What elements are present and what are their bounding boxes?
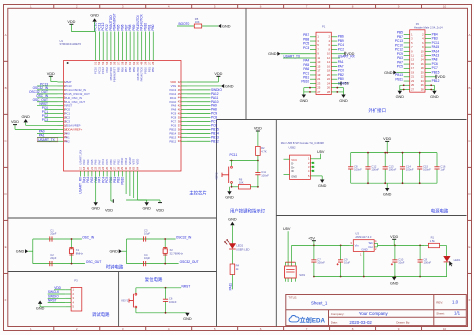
svg-text:Vin: Vin bbox=[355, 243, 359, 247]
svg-text:PB12: PB12 bbox=[211, 139, 219, 143]
connector P2 bbox=[410, 22, 443, 92]
P2 pin 4 bbox=[422, 37, 431, 41]
section divider vertical (debug | reset) bbox=[118, 272, 120, 327]
svg-text:电源电路: 电源电路 bbox=[431, 207, 449, 214]
pin 4 (left PC15_OSC32_OUT) bbox=[58, 92, 91, 96]
VDD flag at P2 pin22 bbox=[431, 75, 446, 79]
svg-text:10uF: 10uF bbox=[344, 261, 350, 265]
svg-text:PB11: PB11 bbox=[395, 77, 403, 81]
svg-text:KEY1: KEY1 bbox=[121, 299, 128, 303]
ground at P2 pin19 bbox=[384, 71, 396, 75]
section divider vertical (left of user-key column) bbox=[216, 120, 218, 327]
svg-text:U1: U1 bbox=[60, 39, 64, 43]
ground at VSS bbox=[221, 84, 234, 88]
P2 pin 11 bbox=[404, 54, 415, 58]
P1 pin 9 bbox=[310, 52, 319, 56]
P1 pin 27 bbox=[310, 90, 321, 94]
svg-text:100nF: 100nF bbox=[389, 168, 397, 172]
capacitor C16 1uF bbox=[434, 153, 445, 184]
wire / net label PC7 (right) bbox=[187, 120, 217, 124]
P2 pin 3 bbox=[404, 37, 413, 41]
svg-text:GND: GND bbox=[318, 184, 327, 188]
VDD flag at P1 pin10 bbox=[337, 52, 354, 56]
wire (bottom pin 14) bbox=[133, 177, 135, 199]
svg-text:PC5: PC5 bbox=[397, 65, 403, 69]
svg-text:PB15: PB15 bbox=[432, 70, 440, 74]
VDD flag right of MCU bbox=[214, 72, 222, 76]
wire bottom to VDD A bbox=[111, 177, 113, 202]
pin 37 (right PC6) bbox=[171, 123, 187, 127]
svg-text:GND: GND bbox=[361, 247, 367, 251]
wire (bottom pin 13) bbox=[129, 177, 131, 197]
pin 2 (left PC13) bbox=[58, 84, 73, 88]
P2 pin 27 bbox=[404, 87, 415, 91]
wire / net label BOOT0 bbox=[177, 22, 194, 26]
wire / net label PC2 bbox=[42, 114, 58, 118]
pin 49 (top PA14/JTCK) bbox=[140, 13, 144, 81]
P1 pin 16 bbox=[327, 64, 337, 68]
P2 pin 25 bbox=[404, 83, 415, 87]
wire rail to GND 12 20pF bbox=[28, 250, 33, 252]
wire USB VCC to U5V bbox=[310, 150, 324, 159]
pin 6 (left PH1_OSC_OUT) bbox=[58, 100, 86, 104]
section divider vertical (headers | MCU) bbox=[245, 8, 247, 119]
cap bank bottom rail bbox=[351, 182, 437, 184]
wire (bottom pin 15) bbox=[137, 177, 139, 201]
P2 pin 12 bbox=[421, 54, 431, 58]
VDD flag at VBAT bbox=[47, 72, 55, 76]
ground at reset bbox=[183, 313, 192, 321]
P1 pin 12 bbox=[327, 56, 337, 60]
svg-text:Sheet:: Sheet: bbox=[436, 311, 445, 315]
pin 28 (bottom PB2) bbox=[116, 159, 120, 177]
svg-text:PC11: PC11 bbox=[230, 153, 238, 157]
wire / net label PB15 (right) bbox=[187, 127, 219, 131]
svg-text:GND: GND bbox=[228, 217, 237, 221]
wire R5 to GND bbox=[202, 25, 218, 27]
wire bottom to GND B bbox=[126, 200, 147, 202]
title block REV bbox=[436, 300, 458, 305]
svg-text:GND: GND bbox=[222, 24, 231, 28]
ground above LED2 bbox=[228, 217, 237, 225]
svg-text:U3: U3 bbox=[355, 231, 359, 235]
op-amp U1 STM32F411RET6 body bbox=[60, 39, 182, 171]
svg-text:Header Male 2.54_2x14: Header Male 2.54_2x14 bbox=[414, 25, 443, 29]
pin 63 (bottom VSS) bbox=[132, 159, 136, 177]
svg-text:Company:: Company: bbox=[331, 312, 345, 316]
svg-text:GND: GND bbox=[142, 207, 151, 211]
P1 pin 18 bbox=[327, 69, 337, 73]
push button KEY2 bbox=[214, 161, 232, 187]
capacitor C4 bbox=[144, 253, 151, 266]
wire / net label OSC_IN bbox=[36, 94, 57, 98]
P2 pin 19 bbox=[404, 70, 415, 74]
svg-text:+5V: +5V bbox=[342, 82, 349, 86]
wire VDD to R2 bbox=[257, 131, 259, 146]
pin 40 (right PC9) bbox=[171, 112, 187, 116]
svg-text:USB2: USB2 bbox=[289, 145, 297, 149]
wire rail to GND 34 10pF bbox=[122, 250, 127, 252]
svg-text:GND: GND bbox=[36, 306, 45, 310]
wire OSC left rail 34 10pF bbox=[126, 239, 128, 264]
crystal X2 32.768KHz bbox=[163, 238, 183, 264]
svg-text:NRST: NRST bbox=[48, 299, 57, 303]
pin 24 (bottom PC4) bbox=[101, 159, 105, 177]
pin 26 (top PB0) bbox=[151, 24, 155, 72]
pin 22 (bottom PA6) bbox=[94, 159, 98, 176]
ground below MCU (A) bbox=[91, 202, 100, 210]
connector P3 (SWD) bbox=[71, 279, 82, 311]
capacitor C2 bbox=[50, 253, 57, 266]
wire P2 pins 25/27 to GND bbox=[400, 84, 405, 90]
wire OSC bottom rail 34 10pF bbox=[127, 263, 179, 265]
svg-text:VDD: VDD bbox=[105, 208, 113, 212]
ground below cap bank bbox=[383, 188, 392, 196]
wire VSS to GND bbox=[187, 85, 221, 87]
polarity mark C9 bbox=[337, 263, 339, 265]
resistor R2 4.7K bbox=[256, 146, 267, 155]
title block Company bbox=[331, 311, 389, 316]
wire U3 to R1 bbox=[424, 244, 428, 246]
regulator top rail right bbox=[378, 245, 425, 247]
wire VSSA to GND bbox=[26, 122, 58, 125]
wire / net label PA0 bbox=[37, 130, 58, 134]
junction C7 top bbox=[340, 245, 342, 247]
capacitor C14 100nF bbox=[400, 153, 414, 184]
svg-text:10: 10 bbox=[443, 327, 447, 331]
svg-text:外扩接口: 外扩接口 bbox=[368, 107, 386, 114]
pin 20 (bottom PA4) bbox=[86, 159, 90, 176]
pin 53 (top PC12) bbox=[101, 22, 105, 74]
pin 1 (left VBAT) bbox=[58, 80, 72, 84]
svg-text:主控芯片: 主控芯片 bbox=[189, 189, 207, 196]
ground below P2 (right) bbox=[430, 91, 439, 99]
regulator top rail left bbox=[292, 245, 350, 247]
svg-text:GND: GND bbox=[16, 250, 25, 254]
VDD flag below MCU (B) bbox=[156, 203, 164, 213]
svg-text:Your Company: Your Company bbox=[359, 311, 389, 316]
P2 pin 18 bbox=[421, 66, 431, 70]
wire GND to LED2 bbox=[231, 225, 233, 244]
USB shield pins bbox=[284, 159, 290, 174]
svg-text:VDD: VDD bbox=[214, 72, 222, 76]
capacitor C6 100nF bbox=[163, 288, 177, 313]
svg-text:A: A bbox=[468, 33, 470, 37]
wire OSC top rail 34 10pF bbox=[127, 238, 176, 240]
wire P2 pin19 to GND bbox=[397, 72, 404, 74]
title block bbox=[286, 295, 467, 326]
resistor R4 1k bbox=[230, 264, 239, 275]
LED LED2 USER LED bbox=[225, 239, 250, 251]
P1 pin 1 bbox=[310, 35, 319, 39]
capacitor C12 100nF bbox=[365, 153, 379, 184]
pin 31 (right VSS) bbox=[171, 84, 187, 88]
wire bottom to VDD B bbox=[138, 200, 160, 203]
P1 pin 4 bbox=[328, 39, 337, 43]
P1 pin 23 bbox=[310, 81, 321, 85]
svg-text:U5V: U5V bbox=[283, 227, 291, 231]
svg-text:GND: GND bbox=[21, 115, 30, 119]
svg-text:立创EDA: 立创EDA bbox=[300, 316, 326, 324]
switch SW1 bbox=[285, 262, 306, 282]
pin 26 (bottom PB0) bbox=[109, 159, 113, 177]
svg-text:B: B bbox=[468, 86, 470, 90]
pin 25 (bottom PC5) bbox=[105, 159, 109, 177]
P2 pin 2 bbox=[422, 32, 431, 36]
pin 59 (top PB7) bbox=[124, 24, 128, 72]
P2 pin 28 bbox=[421, 87, 431, 91]
capacitor C13 100nF bbox=[383, 153, 397, 184]
crystal X1 8MHz bbox=[69, 238, 83, 264]
svg-text:LED2: LED2 bbox=[236, 243, 243, 247]
svg-text:VDD: VDD bbox=[383, 137, 391, 141]
pin 51 (top PC10) bbox=[93, 22, 97, 74]
P2 pin 7 bbox=[404, 45, 413, 49]
svg-text:KEY2: KEY2 bbox=[214, 172, 218, 179]
P1 pin 8 bbox=[328, 47, 337, 51]
ground at P1 pin9 bbox=[268, 52, 280, 56]
pin 50 (top PA15/JTDI) bbox=[136, 15, 140, 80]
svg-text:A: A bbox=[5, 33, 7, 37]
P1 pin 20 bbox=[327, 73, 337, 77]
P2 pin 17 bbox=[404, 66, 415, 70]
svg-text:20pF: 20pF bbox=[50, 232, 56, 236]
pin 14 (left PA0) bbox=[58, 131, 71, 135]
P1 pin 17 bbox=[310, 69, 321, 73]
no-connect flags on USB data pins bbox=[310, 162, 314, 172]
pin 36 (right PB15) bbox=[169, 127, 187, 131]
svg-text:VDD: VDD bbox=[254, 127, 262, 131]
wire / net label VDD (P3) bbox=[54, 286, 65, 290]
P2 pin 23 bbox=[404, 79, 415, 83]
svg-text:ID: ID bbox=[291, 169, 294, 173]
P1 pin 24 bbox=[327, 81, 337, 85]
ground at VSSA bbox=[21, 115, 30, 123]
P1 pin 22 bbox=[327, 77, 337, 81]
wire rail to GND (regulator) bbox=[394, 276, 396, 279]
P1 pin 14 bbox=[327, 60, 337, 64]
P1 pin 5 bbox=[310, 43, 319, 47]
pin 29 (top PB10) bbox=[143, 23, 147, 74]
LED LED1 bbox=[444, 256, 451, 262]
svg-text:100nF: 100nF bbox=[424, 261, 432, 265]
pin 15 (left PA1) bbox=[58, 135, 71, 139]
EasyEDA logo bbox=[289, 315, 325, 324]
pin 35 (right PB14) bbox=[169, 131, 187, 135]
pin 27 (top PB1) bbox=[147, 24, 151, 72]
svg-text:100nF: 100nF bbox=[169, 300, 177, 304]
P2 pin 9 bbox=[404, 49, 413, 53]
wire +5V branch down to SW1 bbox=[291, 245, 293, 262]
P3 pin 4 bbox=[65, 300, 74, 304]
svg-text:F: F bbox=[5, 298, 7, 302]
P1 pin 28 bbox=[327, 90, 337, 94]
junctions on cap bank bbox=[367, 152, 421, 184]
svg-text:时钟电路: 时钟电路 bbox=[106, 264, 124, 271]
svg-text:U5V: U5V bbox=[317, 150, 325, 154]
svg-text:10K: 10K bbox=[195, 20, 200, 24]
P1 pin 21 bbox=[310, 77, 321, 81]
wire bottom to GND A bbox=[95, 177, 97, 203]
wire U5V down to SW1 bbox=[287, 231, 289, 262]
pin 44 (right PA11) bbox=[170, 96, 187, 100]
svg-text:PC3: PC3 bbox=[42, 118, 48, 122]
pin 21 (bottom PA5) bbox=[90, 159, 94, 176]
P3 pin 2 bbox=[65, 292, 74, 296]
P2 pin 24 bbox=[421, 79, 431, 83]
ground at USB bbox=[318, 180, 327, 188]
pin 18 (bottom PA3) bbox=[82, 159, 86, 176]
svg-text:PB12: PB12 bbox=[169, 139, 176, 143]
svg-text:OSC_OUT: OSC_OUT bbox=[86, 260, 101, 264]
svg-text:VDD: VDD bbox=[156, 209, 164, 213]
svg-text:100nF: 100nF bbox=[371, 168, 379, 172]
wire R1 to LED1 bbox=[440, 245, 447, 256]
svg-text:100nF: 100nF bbox=[317, 261, 325, 265]
svg-text:USART_RX: USART_RX bbox=[338, 54, 356, 58]
pin 17 (bottom USART_RX) bbox=[78, 150, 82, 177]
title block Date bbox=[331, 320, 411, 325]
svg-text:Mini USB B SP Female TH_C46398: Mini USB B SP Female TH_C46398 bbox=[281, 141, 324, 145]
wire / net label PC13 bbox=[37, 82, 58, 86]
resistor R1 1.5k bbox=[428, 236, 439, 248]
wire P1 pins 26/28 to GND bbox=[336, 87, 343, 95]
svg-text:Date:: Date: bbox=[331, 321, 338, 325]
pin 45 (right PA12) bbox=[170, 92, 187, 96]
svg-text:GND: GND bbox=[225, 196, 234, 200]
ground below P1 (right) bbox=[339, 95, 348, 103]
P1 pin 13 bbox=[310, 60, 321, 64]
svg-text:VCC: VCC bbox=[291, 158, 297, 162]
ground below MCU (B) bbox=[142, 202, 151, 210]
svg-text:F: F bbox=[469, 298, 471, 302]
pin 7 (left NRST) bbox=[58, 104, 73, 108]
svg-text:GND: GND bbox=[430, 95, 439, 99]
svg-text:100nF: 100nF bbox=[261, 173, 269, 177]
svg-text:VDD: VDD bbox=[135, 159, 139, 165]
svg-text:E: E bbox=[5, 245, 7, 249]
wire PC11 node rail bbox=[230, 160, 259, 162]
svg-text:P3: P3 bbox=[74, 279, 78, 283]
wire / net label PC1 bbox=[42, 110, 58, 114]
svg-text:PB12: PB12 bbox=[432, 79, 440, 83]
svg-text:GND: GND bbox=[300, 99, 309, 103]
regulator U3 AMS1117-3.3 bbox=[350, 231, 378, 276]
wire bottom rail (user key) bbox=[231, 186, 259, 188]
wire / net label PA10 (right) bbox=[187, 100, 219, 104]
wire / port USART_TX bbox=[37, 138, 58, 142]
resistor R6 10K bbox=[238, 178, 250, 189]
wire / net label PA11 (right) bbox=[187, 96, 219, 100]
pin 11 (left PC3) bbox=[58, 119, 71, 123]
svg-text:GND: GND bbox=[90, 14, 99, 18]
svg-text:PB0: PB0 bbox=[151, 67, 155, 73]
P2 pin 16 bbox=[421, 62, 431, 66]
svg-text:USART_TX: USART_TX bbox=[284, 54, 301, 58]
wire / net label PB12 (right) bbox=[187, 139, 219, 143]
P2 pin 13 bbox=[404, 58, 415, 62]
pin 27 (bottom PB1) bbox=[113, 159, 117, 177]
svg-text:BOOT0: BOOT0 bbox=[179, 22, 190, 26]
wire / net label PB13 (right) bbox=[187, 135, 219, 139]
svg-text:Out: Out bbox=[368, 245, 373, 249]
wire / net label OSC32_OUT bbox=[29, 90, 57, 94]
pin 57 (top PB5) bbox=[117, 24, 121, 72]
push button KEY1 bbox=[121, 288, 136, 313]
svg-text:AMS1117-3.3: AMS1117-3.3 bbox=[355, 235, 372, 239]
section divider horizontal (USB/power split) bbox=[276, 215, 466, 217]
svg-text:D-: D- bbox=[291, 162, 294, 166]
svg-text:10: 10 bbox=[443, 5, 447, 9]
capacitor C3 bbox=[144, 228, 151, 241]
svg-text:复位电路: 复位电路 bbox=[145, 276, 163, 283]
svg-text:GND: GND bbox=[384, 71, 393, 75]
svg-text:VDD: VDD bbox=[47, 72, 55, 76]
P3 pin 3 bbox=[65, 296, 74, 300]
capacitor C8b 100nF bbox=[418, 245, 432, 276]
P1 pin 3 bbox=[310, 39, 319, 43]
svg-text:100nF: 100nF bbox=[423, 168, 431, 172]
P2 pin 22 bbox=[421, 75, 431, 79]
P1 pin 6 bbox=[328, 43, 337, 47]
pin 12 (left VSSA/VREF-) bbox=[58, 123, 82, 127]
wire / net label SWDIO (right) bbox=[187, 88, 222, 92]
svg-text:STM32F411RET6: STM32F411RET6 bbox=[60, 42, 82, 46]
svg-text:PC3: PC3 bbox=[303, 46, 309, 50]
VDD flag (user key) bbox=[254, 127, 262, 131]
ground at BOOT0 bbox=[218, 24, 231, 28]
wire LED2 to R4 bbox=[231, 250, 233, 264]
svg-text:P1: P1 bbox=[322, 25, 326, 29]
svg-text:OSC_IN: OSC_IN bbox=[82, 235, 95, 239]
wire / net label PC0 bbox=[42, 106, 58, 110]
svg-text:PB0: PB0 bbox=[151, 24, 155, 30]
svg-text:GND: GND bbox=[225, 84, 234, 88]
VDD flag above cap bank bbox=[383, 137, 391, 141]
mouse cursor bbox=[449, 261, 453, 267]
wire / net label OSC_OUT bbox=[33, 98, 58, 102]
svg-text:10pF: 10pF bbox=[144, 256, 150, 260]
wire reset top rail bbox=[136, 287, 181, 289]
svg-text:GND: GND bbox=[390, 281, 399, 285]
P1 pin 25 bbox=[310, 86, 321, 90]
section divider horizontal (clock section top) bbox=[8, 217, 217, 219]
wire OSC bottom rail 12 20pF bbox=[33, 263, 85, 265]
pin 64 (bottom VDD) bbox=[135, 159, 139, 177]
wire VDD to top pins bbox=[71, 24, 95, 31]
P2 pin 15 bbox=[404, 62, 415, 66]
ground at regulator bbox=[390, 277, 399, 285]
wire cap bank to GND bbox=[386, 183, 388, 188]
pin 29 (bottom PB10) bbox=[120, 157, 124, 176]
svg-text:REV:: REV: bbox=[436, 300, 443, 304]
pin 13 (left VDDA/VREF+) bbox=[58, 127, 83, 131]
ground above MCU bbox=[90, 14, 99, 32]
svg-text:GND: GND bbox=[183, 317, 192, 321]
pin 55 (top PB3/JTDO) bbox=[109, 15, 113, 81]
wire VDDA to VDD bbox=[15, 125, 58, 130]
regulator bottom rail bbox=[313, 276, 447, 278]
svg-text:USART_TX: USART_TX bbox=[38, 138, 55, 142]
P1 pin 11 bbox=[310, 56, 321, 60]
pin 3 (left PC14-OSC32_IN) bbox=[58, 88, 87, 92]
capacitor C7 100nF bbox=[311, 245, 325, 276]
P2 pin 5 bbox=[404, 41, 413, 45]
svg-text:1.5k: 1.5k bbox=[430, 239, 436, 243]
+5V flag at P1 pin24 bbox=[337, 81, 349, 85]
connector P1 bbox=[316, 25, 331, 95]
svg-text:PB10: PB10 bbox=[120, 177, 124, 185]
